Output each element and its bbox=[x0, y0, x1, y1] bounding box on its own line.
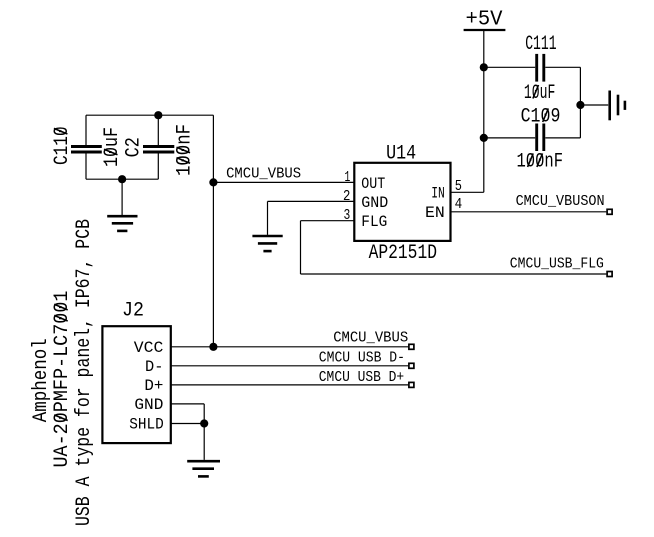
wire GND drop bbox=[267, 201, 269, 235]
svg-text:CMCU_VBUSON: CMCU_VBUSON bbox=[516, 194, 605, 210]
ground left bbox=[107, 216, 137, 231]
svg-text:Amphenol: Amphenol bbox=[30, 338, 53, 422]
capacitor C109 bbox=[521, 106, 561, 152]
wire main vertical VBUS bbox=[212, 115, 214, 347]
wire D- row bbox=[171, 365, 408, 367]
junction node SHLD bbox=[200, 419, 208, 427]
wire pin3 FLG bbox=[301, 220, 355, 222]
node CMCU_VBUS junction bbox=[209, 178, 217, 186]
svg-text:CMCU_VBUS: CMCU_VBUS bbox=[333, 330, 408, 346]
wire D+ row bbox=[171, 384, 408, 386]
capacitor C111 bbox=[525, 33, 556, 82]
svg-text:CMCU USB D-: CMCU USB D- bbox=[319, 351, 405, 367]
svg-text:10uF: 10uF bbox=[101, 127, 124, 167]
wire VCC row bbox=[171, 346, 408, 348]
wire to left ground bbox=[121, 179, 123, 215]
svg-text:3: 3 bbox=[344, 208, 351, 224]
svg-text:C109: C109 bbox=[521, 106, 561, 129]
wire C111 left bbox=[484, 66, 535, 68]
label C2 (rotated) bbox=[123, 137, 146, 157]
wire C2 top bbox=[157, 115, 159, 146]
svg-text:1: 1 bbox=[345, 170, 351, 186]
wire +5V vertical to pin5 bbox=[483, 30, 485, 192]
wire FLG down bbox=[300, 221, 302, 274]
value 10uF of C111 bbox=[524, 82, 555, 105]
svg-text:FLG: FLG bbox=[361, 213, 387, 231]
svg-text:OUT: OUT bbox=[361, 175, 385, 193]
junction node top rail at C2 bbox=[154, 111, 162, 119]
svg-text:AP2151D: AP2151D bbox=[369, 242, 437, 265]
svg-text:IN: IN bbox=[431, 184, 445, 202]
junction node right rail bbox=[576, 101, 584, 109]
port CMCU USB D+ bbox=[409, 382, 414, 387]
port CMCU_USB_FLG bbox=[607, 272, 612, 277]
note UA-20PMFP-LC7001 (rotated) bbox=[51, 291, 74, 468]
wire right rail bbox=[579, 67, 581, 138]
svg-text:UA-20PMFP-LC7001: UA-20PMFP-LC7001 bbox=[51, 291, 74, 468]
svg-text:J2: J2 bbox=[122, 300, 144, 323]
svg-text:10uF: 10uF bbox=[524, 82, 555, 105]
port CMCU_VBUS bbox=[409, 344, 414, 349]
svg-text:4: 4 bbox=[455, 197, 463, 213]
svg-text:D+: D+ bbox=[144, 377, 163, 395]
wire top rail C110/C2 bbox=[86, 114, 213, 116]
wire C110 top bbox=[85, 115, 87, 146]
svg-text:CMCU USB D+: CMCU USB D+ bbox=[319, 370, 404, 386]
wire C109 left bbox=[484, 137, 535, 139]
svg-text:U14: U14 bbox=[386, 143, 416, 166]
junction node C109 row bbox=[480, 134, 488, 142]
junction node VCC bbox=[209, 343, 217, 351]
wire GND down to SHLD bbox=[203, 404, 205, 424]
wire C109 right bbox=[545, 137, 580, 139]
wire SHLD to ground bbox=[203, 424, 205, 460]
capacitor C2 bbox=[143, 147, 174, 153]
svg-text:2: 2 bbox=[343, 189, 350, 205]
svg-text:USB A type for panel, IP67, PC: USB A type for panel, IP67, PCB bbox=[73, 219, 96, 526]
ground U14 bbox=[252, 236, 282, 251]
op-amp U14 body bbox=[354, 163, 450, 241]
wire C110 bottom bbox=[85, 152, 87, 179]
svg-text:D-: D- bbox=[145, 358, 163, 376]
value 100nF (rotated) bbox=[174, 124, 197, 176]
svg-text:EN: EN bbox=[425, 204, 445, 222]
svg-text:VCC: VCC bbox=[134, 339, 164, 357]
value 100nF of C109 bbox=[517, 150, 564, 173]
junction node bottom rail bbox=[118, 175, 126, 183]
capacitor C110 bbox=[71, 147, 102, 153]
svg-text:C111: C111 bbox=[525, 33, 556, 56]
wire pin1 OUT bbox=[213, 181, 354, 183]
wire C2 bottom bbox=[157, 152, 159, 179]
svg-text:C2: C2 bbox=[123, 137, 146, 157]
note Amphenol (rotated) bbox=[30, 338, 53, 422]
wire pin5 IN bbox=[451, 191, 484, 193]
wire pin2 GND bbox=[268, 200, 355, 202]
svg-text:GND: GND bbox=[134, 396, 163, 414]
svg-text:CMCU_VBUS: CMCU_VBUS bbox=[226, 167, 301, 183]
note USB A type for panel, IP67, PCB (rotated) bbox=[73, 219, 96, 526]
wire GND row (J2) bbox=[171, 403, 204, 405]
power +5V symbol bbox=[464, 8, 506, 32]
wire to right ground bbox=[580, 104, 608, 106]
port CMCU_VBUSON bbox=[607, 209, 612, 214]
wire bottom rail bbox=[86, 178, 158, 180]
wire SHLD row bbox=[171, 423, 204, 425]
wire pin4 EN bbox=[451, 211, 607, 213]
value 10uF (rotated) bbox=[101, 127, 124, 167]
svg-text:SHLD: SHLD bbox=[129, 415, 164, 433]
svg-text:GND: GND bbox=[361, 194, 388, 212]
svg-text:CMCU_USB_FLG: CMCU_USB_FLG bbox=[510, 257, 604, 273]
port CMCU USB D- bbox=[409, 363, 414, 368]
svg-text:+5V: +5V bbox=[466, 8, 503, 32]
wire FLG to port bbox=[301, 273, 607, 275]
ground right (rotated) bbox=[610, 91, 625, 121]
connector J2 body bbox=[102, 326, 170, 443]
label C110 (rotated) bbox=[51, 126, 74, 165]
wire C111 right bbox=[545, 66, 580, 68]
junction node C111 row bbox=[480, 63, 488, 71]
ground J2 bbox=[187, 461, 220, 476]
